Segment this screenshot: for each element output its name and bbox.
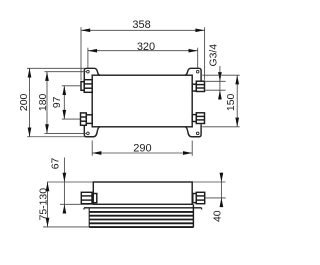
mounting hole bottom-right bbox=[196, 132, 199, 135]
port fitting lower-right (G3/4) bbox=[192, 113, 204, 124]
dimension 40 (port axis depth) bbox=[205, 173, 226, 222]
svg-text:G3/4: G3/4 bbox=[209, 44, 220, 67]
mounting tab bottom-left bbox=[84, 125, 100, 136]
side port left bbox=[81, 192, 96, 203]
dimension 180 (hole spacing vertical) bbox=[38, 72, 86, 134]
svg-text:97: 97 bbox=[52, 96, 63, 108]
dimension G3/4 (port thread) bbox=[205, 44, 225, 100]
dimension 75-130 (overall height side) bbox=[38, 182, 89, 227]
svg-text:200: 200 bbox=[19, 94, 30, 112]
svg-text:150: 150 bbox=[226, 94, 237, 112]
dimension 150 (body height) bbox=[202, 75, 239, 127]
dimension 67 (body height side) bbox=[51, 158, 67, 214]
mounting tab top-left bbox=[84, 68, 100, 80]
side port right bbox=[193, 192, 205, 203]
port fitting upper-right (G3/4) bbox=[192, 81, 204, 91]
mounting tab top-right bbox=[185, 68, 201, 81]
svg-text:358: 358 bbox=[132, 19, 150, 31]
fin stack bbox=[89, 212, 193, 227]
extension of body bottom bbox=[60, 203, 93, 205]
svg-text:320: 320 bbox=[137, 41, 155, 53]
mounting hole top-left bbox=[87, 70, 90, 73]
mounting flange edge-on bbox=[84, 207, 202, 209]
side view top edge with extension bbox=[47, 181, 226, 183]
mounting hole bottom-left bbox=[87, 132, 90, 135]
dimension 290 (body width) bbox=[92, 141, 192, 156]
port fitting lower-left (G3/4) bbox=[81, 113, 93, 125]
svg-text:290: 290 bbox=[133, 142, 151, 154]
mounting hole top-right bbox=[196, 70, 199, 73]
dimension 200 (overall height incl. tabs) bbox=[19, 68, 85, 136]
svg-text:67: 67 bbox=[51, 158, 62, 170]
dimension 358 (overall width) bbox=[81, 19, 205, 80]
housing body (top view) bbox=[92, 75, 192, 127]
svg-text:75-130: 75-130 bbox=[38, 188, 49, 221]
housing body (side view) bbox=[93, 182, 192, 204]
dimension 320 (hole spacing horizontal) bbox=[88, 41, 198, 68]
port fitting upper-left (G3/4) bbox=[81, 80, 92, 93]
svg-text:180: 180 bbox=[38, 94, 49, 112]
svg-text:40: 40 bbox=[213, 210, 224, 222]
dimension 97 (port spacing) bbox=[52, 86, 81, 119]
mounting tab bottom-right bbox=[185, 124, 201, 136]
